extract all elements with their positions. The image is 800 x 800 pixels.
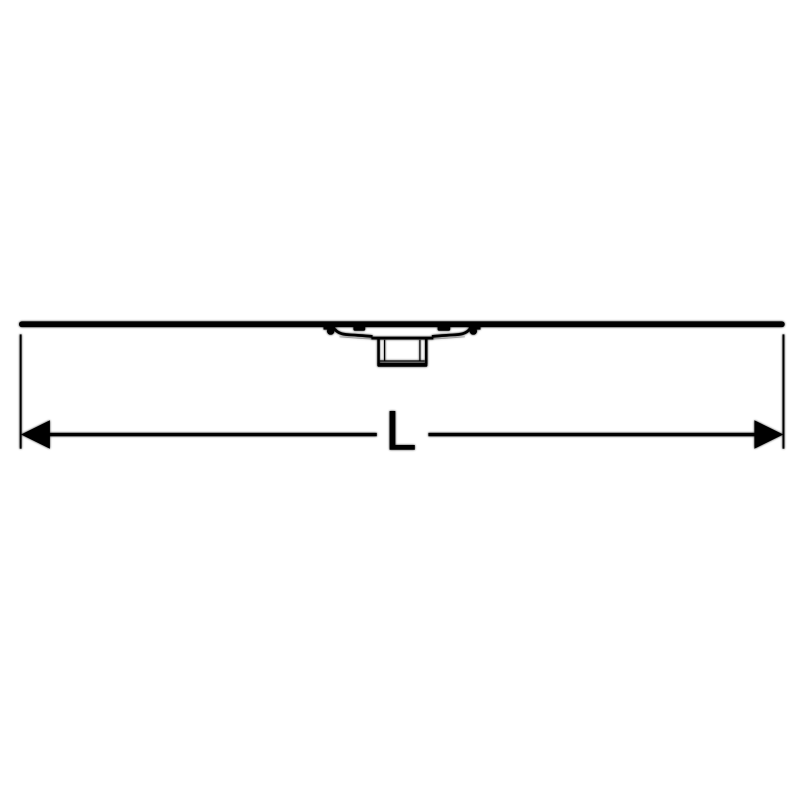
outlet pipe inner bottom line xyxy=(380,360,425,361)
outlet pipe right inner wall xyxy=(419,340,420,361)
right extension line xyxy=(783,334,785,448)
left clip xyxy=(324,326,336,335)
channel body (top bar) xyxy=(19,321,785,327)
outlet pipe left outer wall xyxy=(377,339,380,364)
trap tray under-edge left xyxy=(340,337,372,339)
right clip xyxy=(469,326,481,335)
right tab xyxy=(438,326,451,331)
outlet pipe left inner wall xyxy=(384,340,385,361)
trap tray under-edge right xyxy=(433,337,465,339)
left tab xyxy=(353,326,365,331)
left arrowhead xyxy=(21,420,50,449)
trap tray curve left xyxy=(335,329,373,337)
left extension line xyxy=(20,334,22,448)
dimension line left segment xyxy=(49,433,377,436)
dimension line right segment xyxy=(428,433,755,436)
outlet pipe bottom cap xyxy=(377,363,427,367)
trap flange xyxy=(371,337,433,340)
right arrowhead xyxy=(754,420,783,449)
soft halo duplicate of drawing xyxy=(19,321,785,461)
outlet pipe right outer wall xyxy=(425,339,428,364)
trap tray curve right xyxy=(432,329,470,337)
